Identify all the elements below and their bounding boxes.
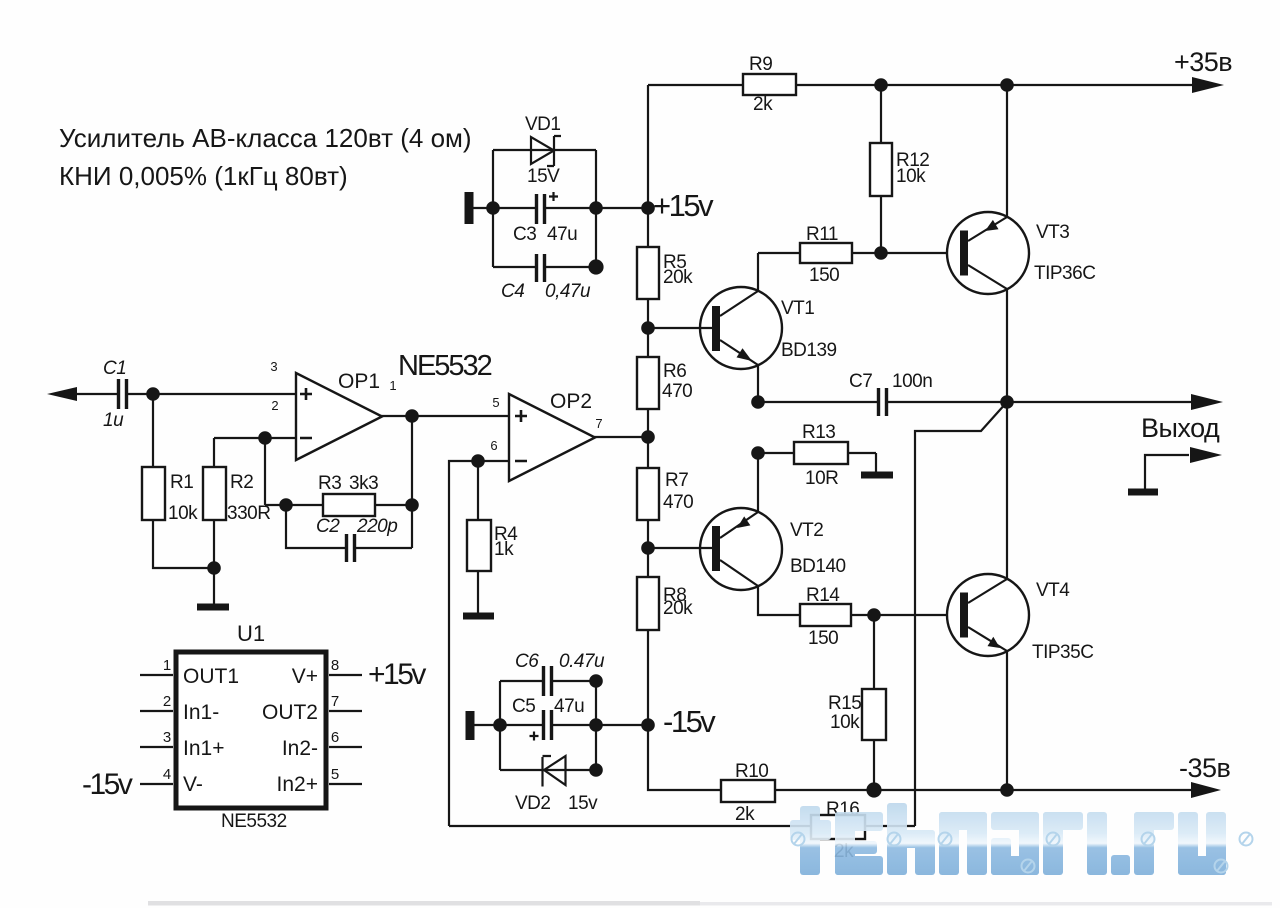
svg-text:3: 3 [163, 729, 171, 746]
op-amp OP2 [490, 390, 602, 481]
resistor R5 20k [637, 247, 693, 299]
node Выход arrow [1191, 394, 1223, 410]
svg-text:8: 8 [331, 657, 339, 674]
node C1/R1 input junction [146, 387, 160, 401]
capacitor C4 0,47u [501, 254, 591, 302]
wire: R1 bottom to R2 stem [153, 520, 214, 604]
svg-text:In1+: In1+ [183, 737, 224, 760]
wire: output ground stub [1145, 455, 1189, 489]
ground (output) [1128, 489, 1158, 496]
node VT2 base junction [641, 541, 655, 555]
wire: VT1 collector vertical [757, 253, 759, 291]
transistor VT1 BD139 [700, 287, 837, 369]
svg-text:2: 2 [271, 398, 278, 413]
resistor R7 470 [637, 468, 693, 520]
svg-text:R15: R15 [828, 693, 861, 714]
resistor R13 10R [794, 422, 848, 489]
svg-text:1k: 1k [494, 539, 514, 560]
svg-text:TIP36C: TIP36C [1034, 263, 1095, 284]
svg-text:220p: 220p [356, 516, 397, 537]
svg-text:КНИ 0,005% (1кГц 80вт): КНИ 0,005% (1кГц 80вт) [59, 161, 348, 191]
node VT3 emitter rail junction [1000, 78, 1014, 92]
svg-text:+35в: +35в [1174, 47, 1232, 77]
wire: output line with C7 [758, 401, 1192, 403]
wire: VT2 emitter vertical [757, 453, 759, 512]
ground (R1 R2) [197, 604, 229, 611]
diode VD1 (zener 15V) [525, 114, 561, 187]
svg-text:7: 7 [331, 693, 339, 710]
wire: OP2 output to ladder [594, 436, 648, 438]
transistor VT2 BD140 [700, 508, 846, 590]
node OP2 inverting/R4 junction [471, 454, 485, 468]
wire: R3 feedback wire [265, 504, 412, 506]
wire: +15v rail from ground to ladder [473, 207, 648, 209]
capacitor C3 47u [513, 192, 577, 245]
svg-text:C6: C6 [515, 651, 539, 672]
svg-text:R10: R10 [735, 761, 768, 782]
svg-text:10k: 10k [830, 712, 860, 733]
resistor R12 10k [870, 143, 929, 196]
capacitor C7 100n [849, 371, 932, 416]
watermark tehnari.ru [790, 803, 1253, 875]
svg-text:Усилитель АВ-класса 120вт (4 о: Усилитель АВ-класса 120вт (4 ом) [59, 123, 472, 153]
ground (R4) [463, 613, 494, 620]
resistor R16 2k [811, 799, 865, 862]
svg-text:15v: 15v [568, 793, 598, 814]
wire: R15 branch vertical [873, 615, 875, 790]
transistor VT4 TIP35C [947, 574, 1093, 663]
svg-text:C5: C5 [512, 696, 535, 717]
resistor R1 10k [142, 467, 198, 524]
svg-text:R13: R13 [802, 422, 835, 443]
capacitor C6 0.47u [515, 651, 605, 696]
svg-text:C7: C7 [849, 371, 872, 392]
wire: VD1 top wire [493, 149, 596, 151]
node +35в arrow [1192, 77, 1224, 93]
node C3 ground-side junction [486, 201, 500, 215]
svg-text:2k: 2k [753, 94, 773, 115]
svg-text:-35в: -35в [1179, 753, 1231, 783]
svg-text:3: 3 [270, 359, 277, 374]
node R15 bottom rail junction [866, 782, 881, 797]
svg-text:15V: 15V [527, 166, 560, 187]
svg-text:7: 7 [595, 416, 602, 431]
wm letter i [1087, 812, 1107, 875]
svg-text:VT2: VT2 [790, 520, 823, 541]
node C3/VD1 right junction [589, 201, 603, 215]
node C6 right junction [589, 674, 603, 688]
svg-text:V-: V- [183, 773, 203, 796]
bottom cropped text line [148, 901, 700, 906]
resistor R11 150 [800, 224, 852, 286]
resistor R4 1k [467, 520, 518, 571]
svg-text:2k: 2k [735, 804, 755, 825]
svg-text:R1: R1 [170, 472, 193, 493]
svg-text:1u: 1u [103, 410, 124, 431]
svg-text:1: 1 [163, 657, 171, 674]
svg-text:20k: 20k [663, 267, 693, 288]
wm letter h [887, 803, 907, 875]
node R12 top junction [874, 78, 888, 92]
ground (left of C5) [466, 711, 475, 740]
wm letter u [1178, 812, 1198, 875]
wire: OP1 output to OP2 + input [381, 415, 509, 417]
IC U1 NE5532 [140, 621, 362, 832]
svg-text:-15v: -15v [663, 704, 716, 739]
wire: feedback tap diagonal from output node [915, 402, 1007, 826]
resistor R10 2k [721, 761, 775, 825]
svg-text:In2+: In2+ [277, 773, 318, 796]
svg-text:C1: C1 [103, 358, 126, 379]
node input arrow [47, 387, 77, 401]
svg-text:VT1: VT1 [781, 298, 814, 319]
svg-text:OUT2: OUT2 [262, 701, 318, 724]
svg-text:R2: R2 [230, 472, 253, 493]
wm letter r [1043, 812, 1063, 875]
svg-text:VT4: VT4 [1036, 580, 1070, 601]
svg-text:2: 2 [163, 693, 171, 710]
node R1/R2 ground junction [207, 561, 221, 575]
node R3/C2 left junction [279, 498, 293, 512]
svg-text:NE5532: NE5532 [398, 350, 492, 382]
resistor R2 330R [203, 467, 270, 524]
resistor R8 20k [637, 577, 693, 630]
node C5 right junction [589, 718, 603, 732]
wire: VD1 loop verticals [493, 150, 596, 267]
wm letter r [1134, 812, 1154, 875]
svg-text:10k: 10k [896, 166, 926, 187]
wire: VT2 collector to R14 and VT4 base [758, 586, 960, 615]
svg-text:BD139: BD139 [781, 340, 837, 361]
wire: C6 top wire [500, 680, 596, 682]
wm letter n [939, 812, 959, 875]
svg-text:330R: 330R [227, 503, 270, 524]
svg-text:6: 6 [490, 438, 497, 453]
node output (Выход) junction [1000, 395, 1014, 409]
node OP1 inverting input junction [258, 431, 272, 445]
wire: R13 branch [758, 453, 876, 472]
wire: VT4 emitter vertical to -35 rail [1006, 651, 1008, 790]
resistor R9 2k [743, 54, 796, 115]
svg-text:VT3: VT3 [1036, 222, 1069, 243]
svg-text:R3: R3 [318, 473, 341, 494]
diode VD2 (zener 15v) [515, 756, 598, 814]
svg-text:10k: 10k [168, 503, 198, 524]
svg-text:3k3: 3k3 [349, 473, 378, 494]
svg-text:470: 470 [663, 492, 693, 513]
svg-text:V+: V+ [292, 665, 318, 688]
svg-text:150: 150 [809, 265, 839, 286]
wire: VT3 emitter vertical to +35 rail [1006, 85, 1008, 217]
wire: OP1 output down to R3 right node [411, 416, 413, 505]
capacitor C5 47u [512, 696, 584, 741]
wm letter e [835, 812, 855, 875]
wire: R4 branch [477, 461, 479, 613]
svg-text:OP1: OP1 [338, 370, 380, 393]
node OP2 output junction [641, 430, 655, 444]
wire: input wire to OP1 + [76, 393, 296, 395]
svg-text:C3: C3 [513, 224, 536, 245]
node VD2 right junction [589, 763, 603, 777]
svg-text:20k: 20k [663, 598, 693, 619]
svg-text:TIP35C: TIP35C [1032, 642, 1093, 663]
wire: feedback down from minus input [264, 438, 266, 505]
wire: main ladder vertical and bottom rail [648, 208, 1194, 790]
wire: C5 C6 VD2 loop verticals [500, 681, 596, 770]
wire: -15v rail with C5 [473, 724, 648, 726]
wire: +35v top rail [648, 84, 1194, 86]
wm letter a [991, 812, 1039, 830]
wire: +15v vertical drop from top rail [647, 85, 649, 208]
svg-text:+15v: +15v [368, 658, 426, 691]
svg-text:0,47u: 0,47u [545, 281, 591, 302]
svg-text:0.47u: 0.47u [559, 651, 605, 672]
svg-text:In2-: In2- [282, 737, 318, 760]
ground (R13) [861, 472, 893, 479]
resistor R6 470 [637, 357, 692, 409]
wire: VD2 bottom wire [500, 769, 596, 771]
svg-text:6: 6 [331, 729, 339, 746]
svg-text:VD2: VD2 [515, 793, 550, 814]
svg-text:5: 5 [492, 395, 499, 410]
node R13 junction [751, 446, 765, 460]
svg-text:R14: R14 [806, 585, 840, 606]
node VT1 base junction [641, 321, 655, 335]
svg-text:10R: 10R [805, 468, 838, 489]
svg-text:R7: R7 [665, 470, 688, 491]
svg-text:1: 1 [389, 378, 396, 393]
svg-text:U1: U1 [237, 621, 265, 646]
wire: VT1 base wire [648, 327, 712, 329]
wire: R11 base wire to VT3 [758, 252, 960, 254]
svg-text:BD140: BD140 [790, 556, 846, 577]
node +15v rail junction [641, 201, 655, 215]
svg-text:C4: C4 [501, 281, 524, 302]
wm dot [1111, 855, 1130, 875]
svg-text:+15v: +15v [653, 188, 714, 223]
node VT4 emitter rail junction [1000, 783, 1014, 797]
wire: VT3 collector vertical to output node [1006, 289, 1008, 402]
svg-text:In1-: In1- [183, 701, 219, 724]
svg-text:-15v: -15v [82, 768, 133, 801]
svg-text:VD1: VD1 [525, 114, 560, 135]
op-amp OP1 [270, 359, 396, 460]
wire: C2 loop [286, 505, 412, 548]
svg-text:OUT1: OUT1 [183, 665, 239, 688]
node -15v rail junction [641, 718, 655, 732]
ground (left of C3) [465, 192, 474, 224]
node R11/R12 junction [874, 246, 888, 260]
resistor R3 3k3 [318, 473, 378, 516]
wire: R12 branch vertical [880, 85, 882, 253]
wm letter t [790, 820, 831, 840]
wire: VT1 emitter vertical [757, 365, 759, 402]
svg-text:C2: C2 [316, 516, 340, 537]
capacitor C2 220p [316, 516, 397, 562]
wire: VT2 base wire [648, 547, 712, 549]
svg-text:4: 4 [163, 766, 171, 783]
svg-text:470: 470 [662, 381, 692, 402]
svg-text:R11: R11 [806, 224, 838, 245]
node OP1 output junction [405, 409, 419, 423]
node R3/C2 right junction [405, 498, 419, 512]
resistor R15 10k [828, 689, 886, 740]
wire: VT4 collector vertical from output node [1006, 402, 1008, 579]
node -35в arrow [1191, 782, 1221, 798]
svg-text:Выход: Выход [1141, 413, 1220, 443]
node R14/R15 junction [867, 608, 881, 622]
svg-text:150: 150 [808, 628, 838, 649]
wire: OP1 minus input wire [214, 438, 296, 467]
node VT1 emitter/C7 junction [751, 395, 765, 409]
svg-text:47u: 47u [547, 224, 577, 245]
node C5 ground-side junction [493, 718, 507, 732]
svg-text:47u: 47u [554, 696, 584, 717]
svg-text:NE5532: NE5532 [221, 811, 287, 832]
svg-text:5: 5 [331, 766, 339, 783]
resistor R14 150 [800, 585, 851, 649]
wire: R1 top vertical [152, 394, 154, 467]
wire: C4 bottom wire [493, 266, 596, 268]
node C4 right junction [588, 259, 603, 274]
capacitor C1 1u [103, 358, 127, 431]
svg-text:100n: 100n [892, 371, 932, 392]
svg-text:R9: R9 [749, 54, 772, 75]
transistor VT3 TIP36C [947, 212, 1095, 294]
wire: R16 feedback line [449, 825, 915, 827]
svg-text:R6: R6 [663, 361, 686, 382]
svg-text:OP2: OP2 [550, 390, 592, 413]
wire: OP2 minus input and feedback vertical [449, 461, 509, 826]
